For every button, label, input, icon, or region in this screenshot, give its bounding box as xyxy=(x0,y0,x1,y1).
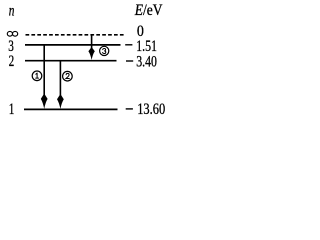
level n=infinity dashed line xyxy=(26,34,125,36)
svg-text:2: 2 xyxy=(9,53,15,70)
transition arrow 1 shaft : n=3 to n=1 xyxy=(43,45,45,96)
minus sign of -1.51 xyxy=(125,44,132,46)
svg-text:3.40: 3.40 xyxy=(136,54,157,71)
svg-text:E/eV: E/eV xyxy=(134,2,163,19)
transition arrow 3 shaft : n=infinity to n=2 xyxy=(91,35,93,49)
transition arrow 3 head xyxy=(88,47,94,60)
transition arrow 1 head xyxy=(41,94,48,109)
svg-text:13.60: 13.60 xyxy=(137,101,165,118)
svg-text:n: n xyxy=(9,2,15,19)
circled 2 label xyxy=(63,71,73,81)
svg-text:1.51: 1.51 xyxy=(136,38,157,55)
transition arrow 2 shaft : n=2 to n=1 xyxy=(59,61,61,96)
level n=1 line xyxy=(24,108,118,110)
level n=3 line xyxy=(25,44,121,46)
transition arrow 2 head xyxy=(57,94,64,109)
circled 1 label xyxy=(32,71,42,81)
minus sign of -3.40 xyxy=(126,60,133,62)
level n=infinity label (drawn as two loops) xyxy=(7,31,12,36)
level n=2 line xyxy=(25,60,117,62)
minus sign of -13.60 xyxy=(126,108,133,110)
circled 3 label xyxy=(100,46,109,55)
svg-text:1: 1 xyxy=(9,101,15,118)
